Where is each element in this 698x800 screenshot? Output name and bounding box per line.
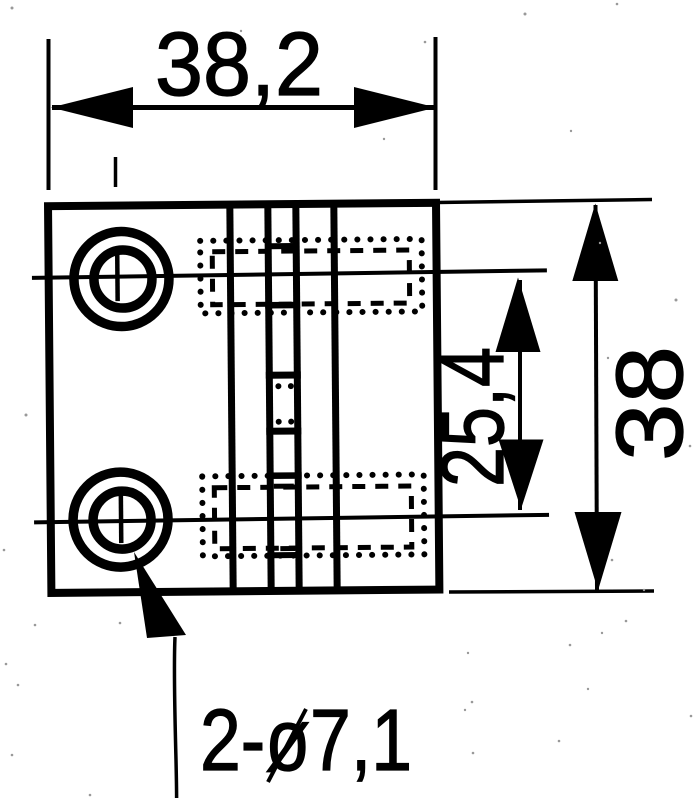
hole H2 outer circle xyxy=(73,472,169,568)
pin bar c xyxy=(266,371,301,378)
leaf edge line L4 xyxy=(334,204,337,591)
svg-text:38: 38 xyxy=(597,346,698,461)
pin bar b xyxy=(265,302,300,309)
dim 25,4 up arrowhead xyxy=(496,278,541,353)
leader line xyxy=(174,637,176,798)
pin bar d xyxy=(266,427,301,434)
center line bottom hole xyxy=(34,515,549,522)
center line stub above hole H1 xyxy=(114,157,118,187)
dim 38 down arrowhead xyxy=(575,512,622,591)
pin dot pair 1 xyxy=(275,383,281,389)
dim 38 top extension line xyxy=(437,200,652,203)
center line top hole xyxy=(32,270,547,277)
dim 38 up arrowhead xyxy=(572,204,618,282)
hidden feature top: outer dotted rect xyxy=(200,239,422,313)
hole H2 vertical center line xyxy=(119,487,124,543)
knuckle line L2 xyxy=(268,204,271,591)
pin bar e xyxy=(267,472,302,479)
hole H1 vertical center line xyxy=(115,251,120,301)
dim 38 shaft xyxy=(596,205,598,590)
dim 38,2 left arrowhead xyxy=(51,87,133,128)
knuckle line L3 xyxy=(296,204,299,591)
part outline xyxy=(48,203,439,593)
hole H1 inner circle xyxy=(94,250,153,309)
hole H1 outer circle xyxy=(74,231,170,327)
hidden feature bottom: outer dotted rect xyxy=(202,474,424,556)
dim 25,4 shaft xyxy=(518,280,522,510)
dim 38,2 right arrowhead xyxy=(354,87,436,128)
svg-text:25,4: 25,4 xyxy=(422,347,522,487)
dim 38,2 shaft xyxy=(52,105,434,110)
hidden feature bottom: inner dashed rect xyxy=(214,486,412,549)
leader arrowhead from hole H2 xyxy=(134,552,186,638)
dim 38 bottom extension line xyxy=(449,591,654,592)
pin dash f xyxy=(274,484,294,489)
dim 38,2 left extension line xyxy=(47,39,51,190)
hole callout ø slash extension xyxy=(268,709,306,782)
svg-text:38,2: 38,2 xyxy=(155,15,323,115)
dim 38,2 right extension line xyxy=(434,37,438,190)
pin bar a xyxy=(270,243,295,249)
svg-text:2-ø7,1: 2-ø7,1 xyxy=(200,692,412,789)
pin dash g xyxy=(280,546,295,551)
pin bar h xyxy=(272,552,297,558)
leaf edge line L1 xyxy=(230,205,233,592)
pin dot pair 2 xyxy=(276,419,282,425)
hidden feature top: inner dashed rect xyxy=(212,250,409,305)
hole H2 inner circle xyxy=(93,491,152,550)
dim 25,4 down arrowhead xyxy=(499,440,544,510)
